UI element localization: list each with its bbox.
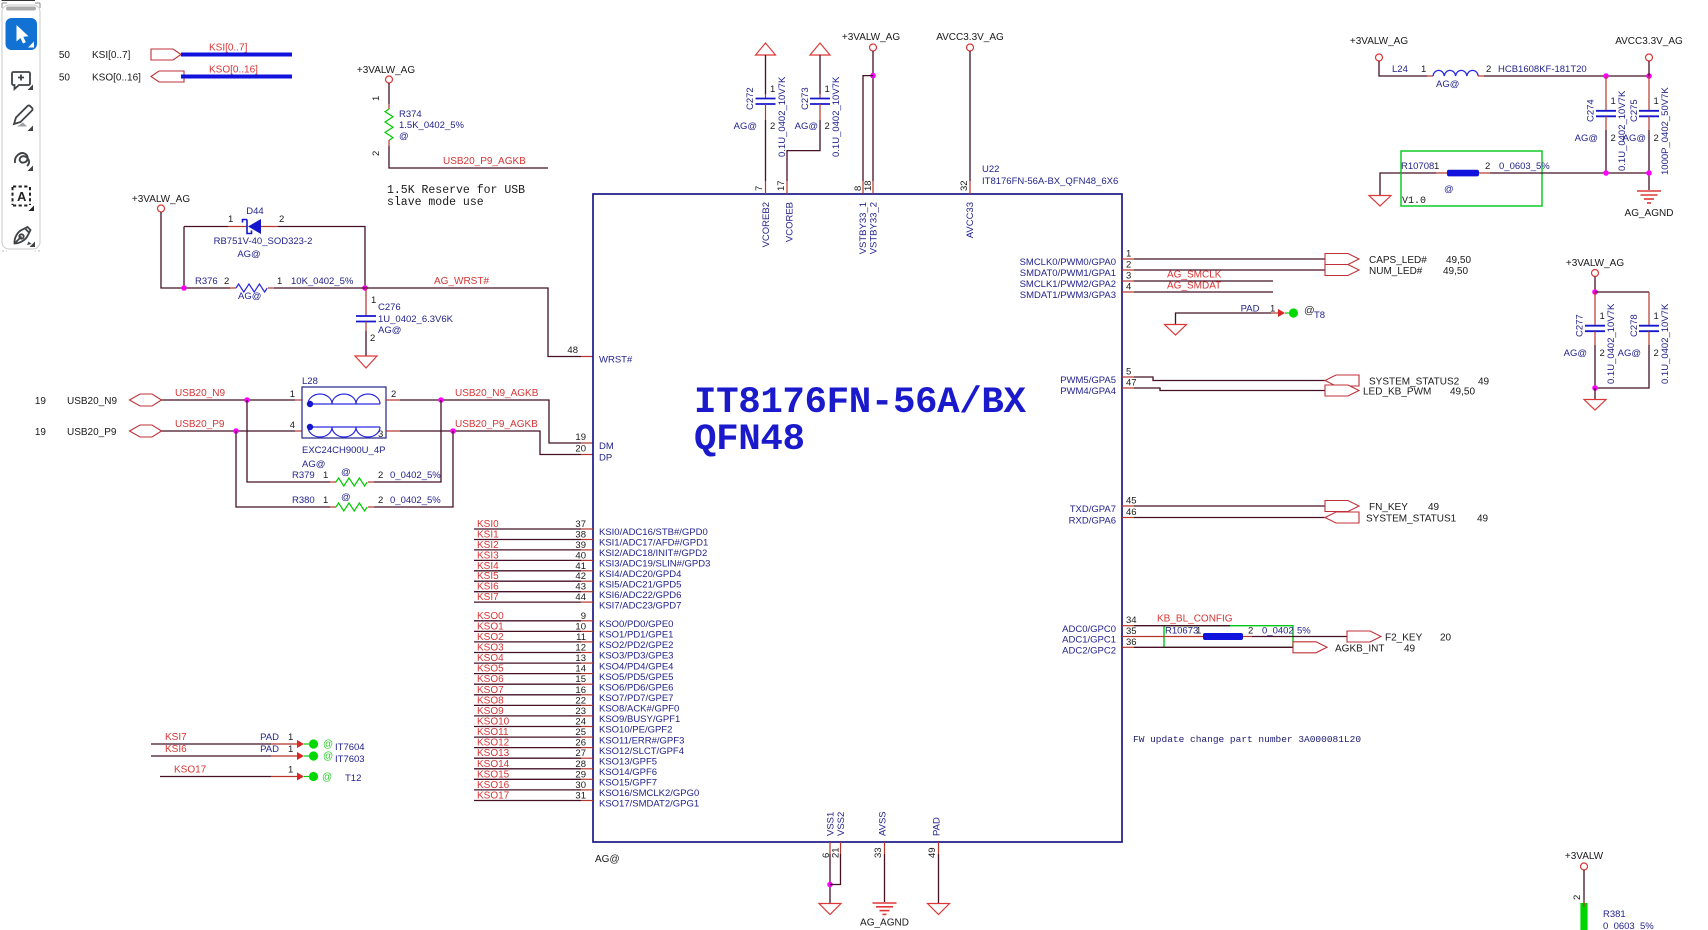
node KSI bus row [59, 43, 292, 62]
svg-text:KSO2/PD2/GPE2: KSO2/PD2/GPE2 [599, 640, 673, 651]
resistor R10708 (0 ohm) [1401, 161, 1550, 195]
selection box R10673 [1164, 626, 1293, 648]
svg-text:1: 1 [323, 470, 328, 481]
svg-text:KSO5: KSO5 [477, 664, 504, 675]
pin 16 KSO7 [474, 685, 673, 704]
svg-text:AG@: AG@ [237, 249, 260, 260]
svg-text:22: 22 [575, 695, 586, 706]
svg-text:+3VALW: +3VALW [1565, 851, 1604, 862]
svg-text:AG@: AG@ [595, 854, 620, 865]
svg-text:ADC0/GPC0: ADC0/GPC0 [1062, 624, 1116, 635]
wire net KB_BL_CONFIG [1134, 625, 1230, 627]
svg-text:42: 42 [575, 571, 586, 582]
svg-text:KSO15/GPF7: KSO15/GPF7 [599, 778, 657, 789]
pin 42 KSI5 [474, 571, 681, 590]
svg-text:R379: R379 [292, 470, 315, 481]
svg-text:KSI2: KSI2 [477, 540, 499, 551]
svg-text:7: 7 [754, 186, 765, 191]
svg-text:VCOREB: VCOREB [785, 202, 796, 242]
svg-text:2: 2 [391, 389, 396, 400]
svg-text:KSO17/SMDAT2/GPG1: KSO17/SMDAT2/GPG1 [599, 799, 699, 810]
svg-text:0_0402_5%: 0_0402_5% [390, 470, 441, 481]
svg-text:KSO13: KSO13 [477, 748, 510, 759]
svg-text:slave mode use: slave mode use [387, 196, 484, 209]
svg-text:41: 41 [575, 561, 586, 572]
pin 15 KSO6 [474, 674, 673, 693]
svg-text:KSI0/ADC16/STB#/GPD0: KSI0/ADC16/STB#/GPD0 [599, 527, 708, 538]
port F2_KEY [1347, 631, 1381, 642]
pin 5 PWM5 [1060, 367, 1134, 387]
svg-text:AG@: AG@ [1623, 133, 1646, 144]
svg-text:AG@: AG@ [1436, 79, 1459, 90]
svg-text:AVCC3.3V_AG: AVCC3.3V_AG [936, 32, 1004, 43]
svg-text:A: A [17, 189, 27, 204]
test pad IT7603 (KSI6) [151, 744, 365, 765]
svg-text:KB_BL_CONFIG: KB_BL_CONFIG [1157, 614, 1233, 625]
pin 14 KSO5 [474, 664, 673, 683]
pin 39 KSI2 [474, 540, 707, 559]
svg-text:KSO6: KSO6 [477, 674, 504, 685]
pin 8 VSTBY33_1 [853, 181, 869, 254]
svg-text:USB20_P9: USB20_P9 [175, 419, 225, 430]
svg-text:46: 46 [1126, 507, 1137, 518]
svg-text:0_0402_5%: 0_0402_5% [390, 495, 441, 506]
pin 2 SMDAT0 [1020, 260, 1134, 280]
svg-text:EXC24CH900U_4P: EXC24CH900U_4P [302, 445, 385, 456]
svg-text:48: 48 [567, 345, 578, 356]
svg-text:KSI6: KSI6 [165, 744, 187, 755]
svg-text:1: 1 [288, 732, 293, 743]
test pad T12 (KSO17) [160, 765, 361, 785]
svg-text:KSO9/BUSY/GPF1: KSO9/BUSY/GPF1 [599, 714, 680, 725]
pin 13 KSO4 [474, 653, 673, 672]
svg-text:AG_AGND: AG_AGND [860, 918, 909, 929]
svg-text:KSO9: KSO9 [477, 706, 504, 717]
svg-text:KSO3: KSO3 [477, 643, 504, 654]
pin 27 KSO13 [474, 748, 657, 767]
power AVCC3.3V_AG (pin32) [936, 32, 1004, 181]
svg-text:KSI5: KSI5 [477, 571, 499, 582]
ground (VSS) [819, 904, 841, 915]
svg-text:KSI0: KSI0 [477, 519, 499, 530]
port USB20_P9 [130, 425, 162, 437]
pin 45 TXD [1070, 496, 1137, 516]
svg-text:AG@: AG@ [238, 291, 261, 302]
pin 22 KSO8 [474, 695, 679, 714]
svg-text:KSO17: KSO17 [174, 765, 207, 776]
toolbar signature pen tool [14, 227, 30, 244]
pin 47 PWM4 [1060, 378, 1136, 398]
svg-text:L24: L24 [1392, 64, 1408, 75]
svg-text:KSO15: KSO15 [477, 769, 510, 780]
svg-text:@: @ [323, 739, 333, 750]
svg-text:SMDAT1/PWM3/GPA3: SMDAT1/PWM3/GPA3 [1020, 290, 1116, 301]
svg-text:CAPS_LED#: CAPS_LED# [1369, 255, 1427, 266]
svg-text:1: 1 [770, 84, 775, 95]
svg-text:2: 2 [770, 121, 775, 132]
power +3VALW_AG (VSTBY) [842, 32, 900, 181]
svg-text:26: 26 [575, 738, 586, 749]
svg-text:VSTBY33_1: VSTBY33_1 [858, 202, 869, 254]
power +3VALW_AG (D44) [132, 194, 230, 288]
svg-text:1: 1 [277, 276, 282, 287]
svg-text:1: 1 [1600, 311, 1605, 322]
svg-text:TXD/GPA7: TXD/GPA7 [1070, 504, 1116, 515]
wire VSS1 pin6 to ground [827, 854, 833, 903]
svg-text:KSI7/ADC23/GPD7: KSI7/ADC23/GPD7 [599, 600, 681, 611]
svg-text:27: 27 [575, 748, 586, 759]
svg-text:FN_KEY: FN_KEY [1369, 502, 1408, 513]
svg-text:0.1U_0402_10V7K: 0.1U_0402_10V7K [777, 76, 788, 157]
svg-text:36: 36 [1126, 637, 1137, 648]
svg-text:2: 2 [825, 121, 830, 132]
svg-text:KSI7: KSI7 [477, 592, 499, 603]
pin 36 ADC2 [1062, 637, 1136, 657]
svg-text:19: 19 [575, 432, 586, 443]
svg-text:KSO12/SLCT/GPF4: KSO12/SLCT/GPF4 [599, 746, 684, 757]
svg-text:KSO6/PD6/GPE6: KSO6/PD6/GPE6 [599, 682, 673, 693]
inductor L24 [1392, 64, 1587, 90]
capacitor C277 [1564, 292, 1617, 388]
svg-text:USB20_N9: USB20_N9 [67, 396, 117, 407]
wire AVSS pin33 to AG_AGND [884, 854, 886, 902]
toolbar select tool (active) [6, 18, 38, 50]
svg-text:C272: C272 [745, 87, 756, 110]
svg-text:KSO3/PD3/GPE3: KSO3/PD3/GPE3 [599, 651, 673, 662]
svg-text:PAD: PAD [932, 817, 943, 836]
wire net AG_SMCLK [1134, 280, 1273, 282]
svg-text:38: 38 [575, 530, 586, 541]
pin 43 KSI6 [474, 582, 681, 601]
svg-text:KSO8: KSO8 [477, 695, 504, 706]
svg-text:VSS2: VSS2 [836, 812, 847, 836]
pin 34 ADC0 [1062, 615, 1136, 635]
svg-text:KSO5/PD5/GPE5: KSO5/PD5/GPE5 [599, 672, 673, 683]
power arrow (C273) [810, 43, 830, 55]
wire VSS2 pin21 [830, 854, 841, 885]
svg-text:49: 49 [1477, 514, 1489, 525]
wire net USB20_P9_AGKB [386, 419, 593, 455]
svg-text:19: 19 [35, 396, 47, 407]
svg-text:35: 35 [1126, 626, 1137, 637]
port SYSTEM_STATUS1 [1325, 512, 1359, 523]
svg-text:1: 1 [1270, 304, 1275, 315]
svg-text:4: 4 [290, 420, 295, 431]
svg-text:VCOREB2: VCOREB2 [761, 202, 772, 247]
wire pin46 to SYSTEM_STATUS1 [1134, 517, 1325, 519]
pin 33 AVSS [873, 811, 889, 858]
ground (C277/C278) [1584, 385, 1606, 410]
svg-text:49: 49 [927, 847, 938, 858]
svg-text:1: 1 [825, 84, 830, 95]
svg-text:49: 49 [1478, 377, 1490, 388]
svg-text:KSO0: KSO0 [477, 611, 504, 622]
svg-text:KSO13/GPF5: KSO13/GPF5 [599, 756, 657, 767]
port KSI[0..7] [151, 49, 181, 60]
svg-text:@: @ [399, 131, 409, 142]
svg-text:28: 28 [575, 759, 586, 770]
svg-text:1: 1 [1421, 64, 1426, 75]
svg-text:KSO4/PD4/GPE4: KSO4/PD4/GPE4 [599, 661, 673, 672]
svg-text:C277: C277 [1575, 314, 1586, 337]
svg-text:+3VALW_AG: +3VALW_AG [842, 32, 900, 43]
svg-text:KSO0/PD0/GPE0: KSO0/PD0/GPE0 [599, 619, 673, 630]
svg-text:KSI1/ADC17/AFD#/GPD1: KSI1/ADC17/AFD#/GPD1 [599, 538, 708, 549]
test pad T8 (PAD) [1165, 304, 1326, 336]
svg-text:PAD: PAD [1241, 304, 1260, 315]
pin 32 AVCC33 [959, 180, 976, 238]
svg-text:25: 25 [575, 727, 586, 738]
svg-text:33: 33 [873, 847, 884, 858]
svg-text:31: 31 [575, 791, 586, 802]
svg-text:0.1U_0402_10V7K: 0.1U_0402_10V7K [1606, 303, 1617, 384]
port NUM_LED# [1325, 265, 1359, 276]
svg-text:0_0603_5%: 0_0603_5% [1499, 161, 1550, 172]
svg-text:LED_KB_PWM: LED_KB_PWM [1363, 387, 1431, 398]
pin 44 KSI7 [474, 592, 681, 611]
svg-text:49,50: 49,50 [1446, 255, 1471, 266]
svg-text:0.1U_0402_10V7K: 0.1U_0402_10V7K [1660, 303, 1671, 384]
svg-text:37: 37 [575, 519, 586, 530]
svg-text:R376: R376 [195, 276, 218, 287]
svg-text:17: 17 [776, 180, 787, 191]
svg-text:KSO7/PD7/GPE7: KSO7/PD7/GPE7 [599, 693, 673, 704]
svg-text:R380: R380 [292, 495, 315, 506]
svg-text:2: 2 [224, 276, 229, 287]
svg-text:DP: DP [599, 453, 612, 464]
node USB20_N9 row [35, 388, 302, 407]
svg-text:KSO11: KSO11 [477, 727, 509, 738]
pin 41 KSI4 [474, 561, 681, 580]
pin 31 KSO17 [474, 791, 699, 810]
svg-text:18: 18 [863, 180, 874, 191]
pin 12 KSO3 [474, 643, 673, 662]
svg-text:2: 2 [1654, 348, 1659, 359]
wire [161, 212, 230, 288]
wire net AG_SMDAT [1134, 291, 1273, 293]
svg-text:KSI3: KSI3 [477, 550, 499, 561]
svg-text:13: 13 [575, 653, 586, 664]
ground (R10708 left) [1369, 173, 1436, 206]
svg-text:1: 1 [1126, 249, 1131, 260]
svg-text:32: 32 [959, 180, 970, 191]
toolbar freeform tool [15, 153, 29, 166]
port SYSTEM_STATUS2 [1325, 375, 1359, 386]
svg-text:3: 3 [1126, 271, 1131, 282]
pin 26 KSO12 [474, 738, 684, 757]
wire pin45 to FN_KEY [1134, 505, 1325, 507]
svg-text:39: 39 [575, 540, 586, 551]
svg-text:C278: C278 [1629, 314, 1640, 337]
svg-text:+3VALW_AG: +3VALW_AG [132, 194, 190, 205]
resistor R10673 (0 ohm) [1134, 626, 1311, 641]
svg-text:49,50: 49,50 [1443, 266, 1468, 277]
svg-text:49,50: 49,50 [1450, 387, 1475, 398]
svg-text:10: 10 [575, 621, 586, 632]
svg-text:45: 45 [1126, 496, 1137, 507]
svg-text:R10673: R10673 [1165, 626, 1198, 637]
ground AG_AGND (bottom) [860, 903, 909, 929]
svg-text:RXD/GPA6: RXD/GPA6 [1069, 516, 1116, 527]
svg-text:20: 20 [1440, 633, 1452, 644]
svg-text:T12: T12 [345, 773, 361, 784]
svg-text:@: @ [341, 467, 351, 478]
wire [388, 83, 390, 104]
power +3VALW (R381) [1565, 851, 1604, 903]
svg-text:@: @ [322, 772, 332, 783]
pin 48 stub [581, 356, 593, 358]
svg-text:0_0603_5%: 0_0603_5% [1603, 921, 1654, 930]
svg-text:2: 2 [378, 470, 383, 481]
port CAPS_LED# [1325, 254, 1359, 265]
svg-text:VSS1: VSS1 [826, 812, 837, 836]
svg-text:+3VALW_AG: +3VALW_AG [357, 65, 415, 76]
svg-text:@: @ [341, 492, 351, 503]
svg-text:47: 47 [1126, 378, 1137, 389]
svg-text:@: @ [323, 751, 333, 762]
capacitor C273 [787, 55, 842, 181]
svg-text:SMDAT0/PWM1/GPA1: SMDAT0/PWM1/GPA1 [1020, 268, 1116, 279]
svg-text:U22: U22 [982, 164, 999, 175]
pin 11 KSO2 [474, 632, 673, 651]
test pad IT7604 (KSI7) [151, 732, 365, 753]
svg-text:40: 40 [575, 550, 586, 561]
svg-text:2: 2 [371, 151, 382, 156]
bus KSO[0..16] [181, 75, 292, 79]
resistor R379 [247, 400, 441, 486]
pin 37 KSI0 [474, 519, 708, 538]
power AVCC3.3V_AG (top right) [1615, 36, 1683, 76]
pin 18 VSTBY33_2 [863, 180, 880, 254]
pin 17 VCOREB [776, 180, 796, 242]
svg-text:11: 11 [576, 632, 586, 643]
svg-text:PAD: PAD [260, 744, 279, 755]
svg-text:C275: C275 [1629, 99, 1640, 122]
toolbar text-select tool [13, 187, 31, 206]
svg-text:KSI5/ADC21/GPD5: KSI5/ADC21/GPD5 [599, 580, 681, 591]
svg-text:NUM_LED#: NUM_LED# [1369, 266, 1423, 277]
diode D44 [214, 206, 313, 260]
svg-text:AGKB_INT: AGKB_INT [1335, 643, 1384, 654]
svg-text:4: 4 [1126, 282, 1131, 293]
svg-text:KSO10/PE/GPF2: KSO10/PE/GPF2 [599, 725, 672, 736]
svg-text:VSTBY33_2: VSTBY33_2 [869, 202, 880, 254]
svg-text:SMCLK1/PWM2/GPA2: SMCLK1/PWM2/GPA2 [1020, 279, 1116, 290]
svg-text:KSO10: KSO10 [477, 717, 510, 728]
svg-text:QFN48: QFN48 [694, 419, 805, 461]
svg-text:24: 24 [575, 717, 586, 728]
power arrow (C272) [756, 43, 776, 55]
svg-text:KSO17: KSO17 [477, 791, 510, 802]
svg-text:KSI4: KSI4 [477, 561, 499, 572]
svg-text:1: 1 [288, 744, 293, 755]
svg-text:49: 49 [1428, 502, 1440, 513]
svg-text:16: 16 [575, 685, 586, 696]
pin 23 KSO9 [474, 706, 680, 725]
svg-text:5%: 5% [1297, 626, 1311, 637]
svg-text:DM: DM [599, 441, 614, 452]
svg-text:R381: R381 [1603, 909, 1626, 920]
svg-text:USB20_N9: USB20_N9 [175, 388, 225, 399]
toolbar comment tool [12, 72, 30, 89]
pin 9 KSO0 [474, 611, 673, 630]
svg-text:AG@: AG@ [1564, 348, 1587, 359]
svg-text:3: 3 [378, 429, 383, 440]
svg-text:AG@: AG@ [1575, 133, 1598, 144]
resistor R381 (0 ohm, green) [1580, 900, 1654, 930]
wire pin36 to AGKB_INT [1134, 646, 1293, 648]
svg-text:AG@: AG@ [1618, 348, 1641, 359]
svg-text:2: 2 [1611, 133, 1616, 144]
svg-text:KSO14/GPF6: KSO14/GPF6 [599, 767, 657, 778]
svg-text:F2_KEY: F2_KEY [1385, 633, 1423, 644]
svg-text:KSI4/ADC20/GPD4: KSI4/ADC20/GPD4 [599, 569, 681, 580]
svg-text:C274: C274 [1586, 99, 1597, 122]
node USB20_P9 row [35, 419, 302, 438]
inductor L28 (common-mode choke) [290, 376, 397, 470]
svg-text:2: 2 [1126, 260, 1131, 271]
svg-text:1: 1 [1654, 96, 1659, 107]
svg-text:KSO4: KSO4 [477, 653, 504, 664]
pin 40 KSI3 [474, 550, 710, 569]
svg-text:D44: D44 [246, 206, 263, 217]
pin 28 KSO14 [474, 759, 657, 778]
svg-text:USB20_P9_AGKB: USB20_P9_AGKB [455, 419, 538, 430]
svg-text:KSO[0..16]: KSO[0..16] [209, 65, 258, 76]
svg-text:1: 1 [288, 765, 293, 776]
svg-text:AG_SMDAT: AG_SMDAT [1167, 281, 1221, 292]
svg-text:KSI6: KSI6 [477, 582, 499, 593]
svg-text:AG_AGND: AG_AGND [1625, 208, 1674, 219]
svg-text:+3VALW_AG: +3VALW_AG [1566, 258, 1624, 269]
port LED_KB_PWM [1325, 385, 1359, 396]
svg-text:AG@: AG@ [795, 121, 818, 132]
IC U22 IT8176FN-56A-BX body [593, 164, 1122, 842]
svg-text:50: 50 [59, 50, 71, 61]
pin 35 ADC1 [1062, 626, 1136, 646]
svg-text:AVCC3.3V_AG: AVCC3.3V_AG [1615, 36, 1683, 47]
svg-text:2: 2 [1485, 161, 1490, 172]
wire L24 to AVCC3.3V_AG [1484, 75, 1649, 77]
pin 1 SMCLK0 [1020, 249, 1134, 269]
svg-text:PAD: PAD [260, 732, 279, 743]
svg-text:RB751V-40_SOD323-2: RB751V-40_SOD323-2 [214, 236, 313, 247]
svg-text:WRST#: WRST# [599, 355, 633, 366]
node KSO bus row [59, 65, 292, 84]
pin 4 SMDAT1 [1020, 282, 1134, 302]
svg-text:KSO12: KSO12 [477, 738, 510, 749]
ground [355, 356, 377, 368]
resistor R374 [371, 104, 548, 168]
svg-text:USB20_N9_AGKB: USB20_N9_AGKB [455, 388, 539, 399]
pin 21 VSS2 [831, 812, 848, 858]
svg-text:KSO16/SMCLK2/GPG0: KSO16/SMCLK2/GPG0 [599, 788, 699, 799]
svg-text:43: 43 [575, 582, 586, 593]
svg-text:1: 1 [371, 295, 376, 306]
svg-text:2: 2 [1600, 348, 1605, 359]
port USB20_N9 [130, 394, 162, 406]
svg-text:50: 50 [59, 73, 71, 84]
svg-text:9: 9 [581, 611, 586, 622]
capacitor C272 [734, 55, 788, 181]
svg-text:AG@: AG@ [734, 121, 757, 132]
svg-text:12: 12 [575, 643, 586, 654]
svg-text:2: 2 [1572, 895, 1583, 900]
svg-text:C276: C276 [378, 302, 401, 313]
svg-text:20: 20 [575, 444, 586, 455]
port AGKB_INT [1293, 642, 1327, 653]
svg-text:1: 1 [1434, 161, 1439, 172]
